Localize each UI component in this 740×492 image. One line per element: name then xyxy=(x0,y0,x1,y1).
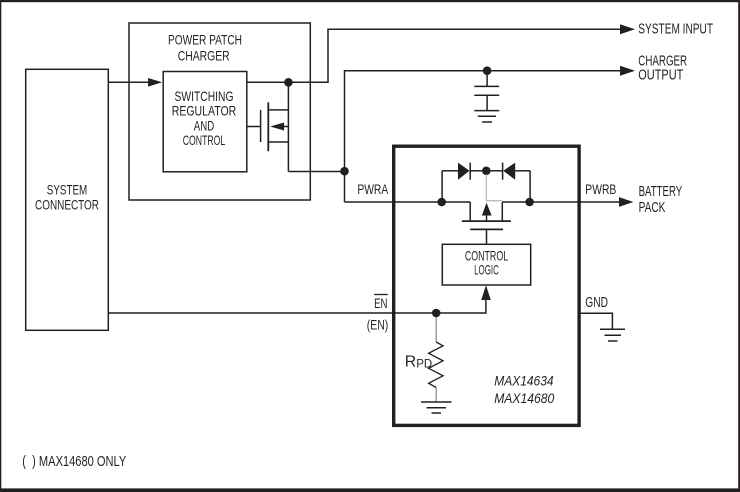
svg-text:LOGIC: LOGIC xyxy=(474,261,499,277)
label: RPD xyxy=(405,354,432,371)
label: GND xyxy=(585,295,608,311)
svg-text:MAX14634: MAX14634 xyxy=(494,374,553,389)
svg-text:GND: GND xyxy=(585,295,608,311)
arrow into control logic xyxy=(481,285,491,300)
svg-text:PWRA: PWRA xyxy=(357,182,388,198)
node: capacitor junction xyxy=(483,66,492,75)
transistor Q2 (internal switch) xyxy=(462,202,511,244)
diode D2 xyxy=(490,163,530,202)
svg-text:(EN): (EN) xyxy=(367,317,389,333)
label: CONTROL LOGIC xyxy=(465,247,508,277)
arrow into regulator xyxy=(148,78,162,87)
arrow: SYSTEM INPUT xyxy=(620,24,635,34)
label: CHARGER OUTPUT xyxy=(638,54,687,84)
svg-text:PWRB: PWRB xyxy=(585,182,616,198)
wire: GND pin xyxy=(580,313,612,329)
block: SYSTEM CONNECTOR xyxy=(26,69,109,330)
arrow: CHARGER OUTPUT xyxy=(620,66,635,76)
wire: Q1 source to charger-output node xyxy=(288,171,344,173)
capacitor C1 xyxy=(474,71,499,111)
transistor Q1 (power patch PMOS) xyxy=(261,82,289,171)
svg-text:CHARGER: CHARGER xyxy=(178,48,230,64)
wire: connector to regulator xyxy=(108,81,149,83)
wire: regulator gate xyxy=(247,126,261,128)
svg-text:PACK: PACK xyxy=(639,200,666,216)
svg-text:OUTPUT: OUTPUT xyxy=(638,67,683,83)
svg-text:MAX14680: MAX14680 xyxy=(494,391,555,406)
svg-text:REGULATOR: REGULATOR xyxy=(172,104,237,119)
node: EN junction xyxy=(432,309,441,318)
label: POWER PATCH CHARGER xyxy=(168,32,242,64)
diode D1 xyxy=(442,163,482,202)
svg-text:( ) MAX14680 ONLY: ( ) MAX14680 ONLY xyxy=(22,454,126,470)
wire: body tie (gray) xyxy=(486,174,502,201)
wire: regulator output top xyxy=(247,29,621,82)
resistor RPD xyxy=(429,317,443,402)
label: EN (with overline) xyxy=(374,295,388,312)
arrow: BATTERY PACK xyxy=(619,197,633,207)
svg-text:EN: EN xyxy=(374,296,387,312)
node: diode center xyxy=(482,167,491,176)
label: BATTERY PACK xyxy=(639,184,683,216)
wire: charger output net xyxy=(345,71,622,202)
node: regulator drain junction xyxy=(284,78,293,87)
wire: PWRA xyxy=(345,201,471,203)
label: SYSTEM CONNECTOR xyxy=(35,182,99,213)
svg-text:SWITCHING: SWITCHING xyxy=(175,89,234,104)
wire: PWRB out xyxy=(502,201,620,203)
svg-text:CONTROL: CONTROL xyxy=(183,133,226,148)
label: SYSTEM INPUT xyxy=(638,22,713,38)
block: SWITCHING REGULATOR AND CONTROL xyxy=(163,72,247,172)
label: PWRB xyxy=(585,182,616,198)
svg-text:POWER PATCH: POWER PATCH xyxy=(168,32,242,48)
label: MAX14634 / MAX14680 xyxy=(494,374,555,407)
block: POWER PATCH CHARGER xyxy=(129,23,310,200)
svg-text:SYSTEM INPUT: SYSTEM INPUT xyxy=(638,22,713,38)
svg-text:SYSTEM: SYSTEM xyxy=(47,182,88,198)
label: (EN) xyxy=(367,317,389,333)
node: PWRA internal junction xyxy=(437,198,446,207)
svg-text:CONNECTOR: CONNECTOR xyxy=(35,197,99,213)
label: PWRA xyxy=(357,182,388,198)
node: PWRB internal junction xyxy=(525,198,534,207)
ground (GND pin) xyxy=(600,329,625,341)
svg-text:AND: AND xyxy=(194,118,214,133)
ground (capacitor) xyxy=(474,111,499,122)
svg-text:BATTERY: BATTERY xyxy=(639,184,683,200)
block: MAX14634/MAX14680 IC xyxy=(394,146,579,425)
block: CONTROL LOGIC xyxy=(442,244,530,285)
note: ( ) MAX14680 ONLY xyxy=(22,454,126,470)
ground (RPD) xyxy=(421,402,452,413)
node: charger output junction xyxy=(340,167,349,176)
label: SWITCHING REGULATOR AND CONTROL xyxy=(172,89,237,148)
wire: EN xyxy=(108,299,486,313)
